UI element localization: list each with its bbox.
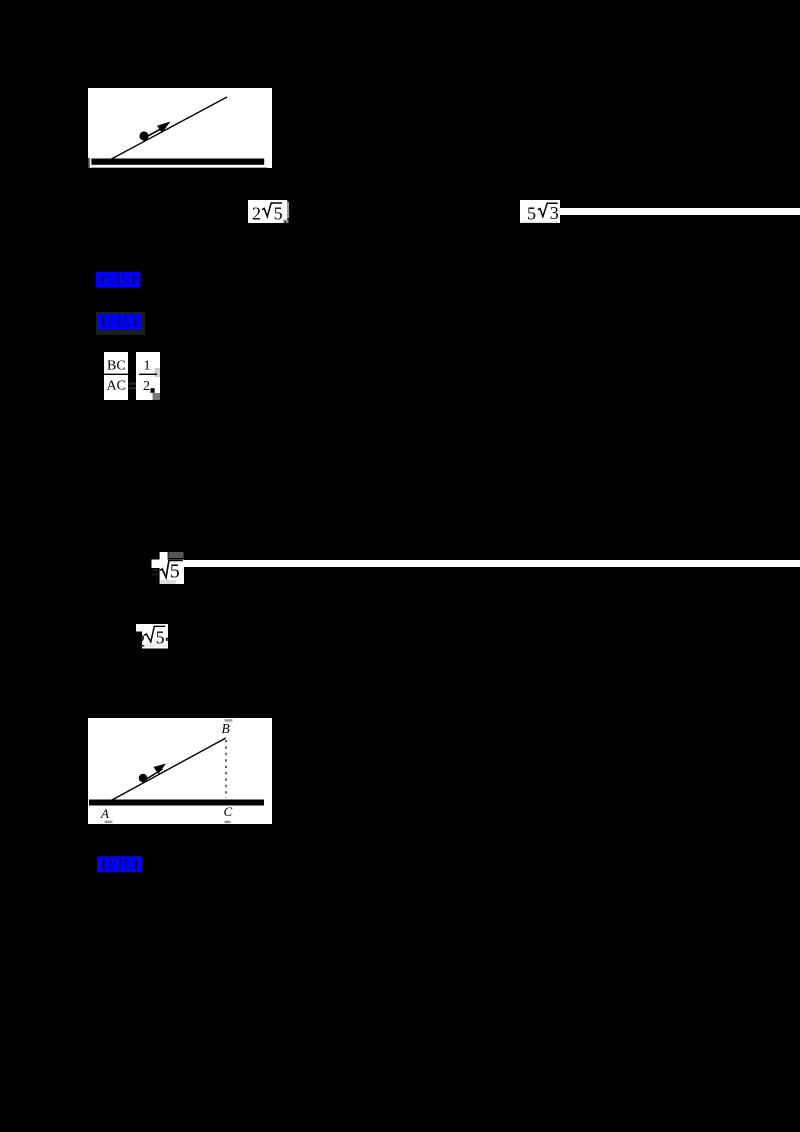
svg-text:BC: BC	[107, 359, 126, 374]
gray mark under A	[105, 821, 113, 823]
faint equals left	[152, 569, 158, 571]
incline line	[111, 97, 227, 159]
svg-text:5: 5	[156, 628, 165, 648]
formula BC/AC fraction	[104, 352, 128, 400]
corner notch bottom-left	[88, 158, 90, 168]
incline line	[112, 738, 226, 800]
gray top-right block	[169, 552, 184, 558]
diagram box 2: incline with labels A B C	[88, 718, 272, 824]
svg-text:5: 5	[170, 561, 180, 583]
svg-text:1: 1	[144, 359, 151, 374]
svg-text:2: 2	[143, 379, 150, 394]
svg-text:3: 3	[550, 203, 559, 223]
velocity arrow shaft	[147, 769, 163, 779]
radical glyph	[160, 561, 183, 578]
blue label 3	[97, 856, 143, 873]
velocity arrow head	[157, 122, 171, 134]
velocity arrow head	[154, 764, 167, 775]
white fill-line after 5sqrt3	[560, 208, 800, 215]
light strip bottom	[160, 580, 176, 584]
left arm	[152, 560, 161, 569]
svg-text:5: 5	[274, 204, 283, 224]
faint equals sign	[128, 380, 140, 392]
dotted vertical line BC	[225, 740, 227, 798]
ground bar	[89, 800, 264, 806]
white main box	[160, 560, 184, 585]
blue label 2 with dark backing	[96, 312, 145, 335]
formula 5sqrt3	[520, 200, 560, 223]
ground bar	[91, 159, 264, 165]
svg-text:A: A	[100, 806, 109, 821]
ball	[139, 774, 148, 783]
white background of figure 1	[88, 88, 272, 168]
gray mark under C	[225, 821, 231, 823]
formula sqrt5 second	[135, 623, 171, 650]
svg-text:B: B	[222, 721, 230, 736]
formula 1/2 fraction	[136, 352, 160, 400]
svg-text:C: C	[224, 804, 233, 819]
white background of figure 2	[88, 718, 272, 824]
formula sqrt5 first with long line	[151, 551, 185, 585]
svg-text:2: 2	[252, 204, 261, 224]
svg-text:5: 5	[527, 203, 536, 223]
svg-text:,: ,	[284, 211, 287, 224]
blue label 1	[96, 271, 141, 288]
svg-text:AC: AC	[107, 379, 126, 394]
top stub	[160, 552, 168, 560]
formula 2sqrt5	[248, 200, 290, 224]
gray mark above B	[225, 719, 233, 721]
velocity arrow shaft	[147, 126, 166, 137]
diagram box 1: incline with ball	[88, 88, 272, 168]
ball	[139, 131, 148, 140]
bottom border hairline	[91, 166, 267, 169]
white fill-line after first sqrt5	[184, 560, 800, 567]
svg-text:2: 2	[136, 631, 145, 651]
